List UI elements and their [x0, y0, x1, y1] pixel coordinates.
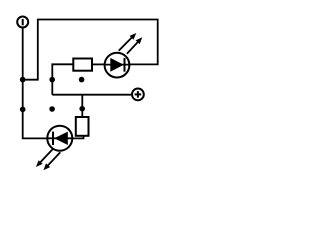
terminal J1 — [17, 17, 28, 28]
LED D2 — [36, 126, 73, 171]
resistor R1 — [73, 59, 92, 71]
node B junction dot — [20, 107, 26, 113]
node C dot — [49, 106, 55, 112]
wire R1 to LED D1 — [92, 63, 105, 65]
LED D1 — [104, 33, 143, 78]
wire node A branch to top rail and right rail to LED D1 cathode — [23, 20, 158, 80]
terminal + — [132, 89, 144, 101]
node E dot — [79, 77, 85, 83]
node F junction dot — [79, 106, 85, 112]
wire from R1 left to vertical branch — [52, 64, 73, 94]
wire left column from J1 down to LED D2 — [23, 28, 48, 138]
wire LED D2 to R2 bottom — [72, 136, 83, 139]
resistor R2 — [76, 117, 89, 136]
node D junction dot — [49, 77, 55, 83]
wire riser to R2 top — [81, 95, 83, 117]
wire plus rail to terminal — [52, 94, 131, 96]
node A junction dot — [20, 77, 26, 83]
